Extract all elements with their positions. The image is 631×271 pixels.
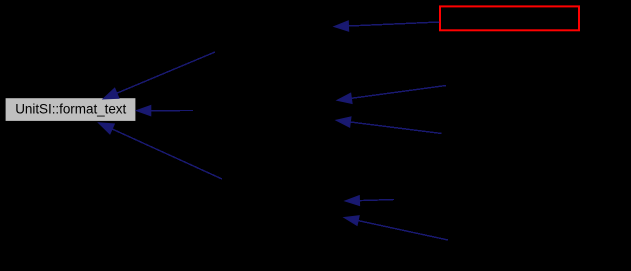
edge L4: red node -> top middle caller [334, 21, 440, 31]
svg-text:UnitSI::format_text: UnitSI::format_text [15, 101, 126, 116]
edge L1: top middle caller -> UnitSI::format_text [103, 52, 215, 99]
edge L5: right caller -> middle caller (upper) [337, 86, 446, 104]
edge L8: right caller -> bottom middle caller (diagonal) [344, 216, 448, 240]
edge L6: right caller -> middle caller (lower) [336, 117, 442, 134]
edge L7: right caller -> bottom middle caller (horizontal) [345, 196, 394, 206]
node UnitSI::format_text (current node, grey fill) [6, 98, 136, 121]
node (red truncated box, label invisible on black) [440, 6, 579, 30]
edge L2: middle caller -> UnitSI::format_text (horizontal) [136, 105, 193, 115]
edge L3: bottom middle caller -> UnitSI::format_text [99, 123, 223, 179]
